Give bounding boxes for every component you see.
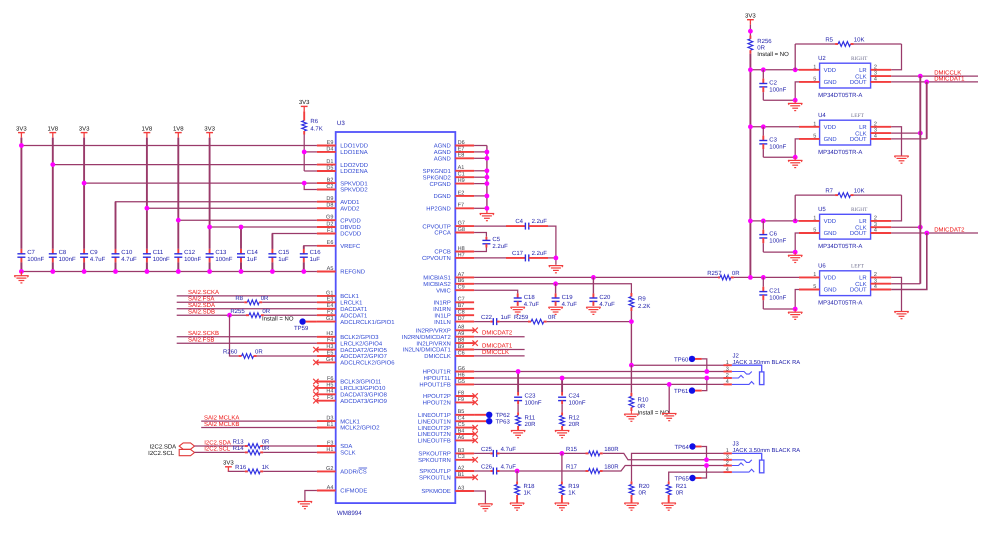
svg-text:20R: 20R [525,421,537,428]
svg-text:SAI2.SDB: SAI2.SDB [188,309,215,316]
resistor R257 0R from MICBIAS1 [707,270,750,280]
svg-text:DACDAT3/GPIO8: DACDAT3/GPIO8 [340,392,387,399]
junction G5 ground tap [667,382,672,387]
svg-text:1: 1 [813,216,816,222]
svg-text:SDA: SDA [340,443,352,450]
wire R6 to LDO1ENA D4 and LDO2ENA D5 [304,135,317,172]
svg-text:TP61: TP61 [674,388,689,395]
svg-text:A3: A3 [458,485,465,491]
capacitor C18 4.7uF [514,293,540,308]
junction U6 ground node [793,307,798,312]
wire U2 CLK to DMICCLK [891,70,978,77]
capacitor C21 100nF [759,277,786,309]
svg-text:100nF: 100nF [769,144,786,151]
junctions on U4 VDD row [748,124,766,129]
svg-text:1V8: 1V8 [173,125,184,132]
svg-text:MP34DT05TR-A: MP34DT05TR-A [818,243,862,250]
svg-text:C9: C9 [90,249,98,256]
svg-text:HPOUT1R: HPOUT1R [423,369,451,376]
svg-text:MICBIAS2: MICBIAS2 [423,281,451,288]
svg-text:C7: C7 [27,249,35,256]
svg-text:C5: C5 [458,422,465,428]
svg-text:2: 2 [726,460,729,466]
ground at J2 pin4 [662,414,676,421]
svg-text:3V3: 3V3 [745,13,756,20]
wire SDB down to R260 row [230,315,239,356]
svg-text:0R: 0R [262,445,270,452]
svg-text:IN1RN: IN1RN [433,306,451,313]
svg-text:D9: D9 [326,196,333,202]
junction sleeve node R9/R10/J2 [629,363,634,368]
svg-text:CPVOUTP: CPVOUTP [422,223,451,230]
svg-text:C8: C8 [59,249,67,256]
svg-text:C6: C6 [769,231,777,238]
wire C15 to DCVDD F1 row [272,234,317,249]
svg-text:LDO1VDD: LDO1VDD [340,143,368,150]
svg-text:ADCDAT2/GPIO7: ADCDAT2/GPIO7 [340,353,387,360]
svg-text:AVDD1: AVDD1 [340,199,359,206]
svg-text:SPKMODE: SPKMODE [421,488,451,495]
svg-text:100nF: 100nF [184,256,201,263]
svg-text:C22: C22 [481,314,493,321]
svg-text:3V3: 3V3 [299,99,310,106]
svg-text:2.2uF: 2.2uF [532,250,548,257]
junction D4 row [302,150,307,155]
node SAI2 MCLKB to MCLK2 [201,421,317,428]
svg-text:4: 4 [874,228,877,234]
svg-text:C6: C6 [458,350,465,356]
wire C16 to VREFC E6 row [304,246,317,249]
capacitor C11 100nF [143,249,170,263]
test point TP63 [474,418,510,426]
svg-text:ADDR/CS: ADDR/CS [340,469,367,476]
svg-text:A5: A5 [327,266,334,272]
svg-text:R7: R7 [825,188,833,195]
wire VDD row U2 [750,69,799,71]
node DMICDAT1 at IN2LN B9 [474,342,524,349]
svg-text:LR: LR [859,67,867,74]
wire U2 DOUT to DMICDAT1 [891,75,978,82]
power symbol 1V8 rail column 6 [173,125,184,137]
capacitor C17 2.2uF [512,250,547,261]
svg-text:180R: 180R [604,446,619,453]
svg-text:C18: C18 [524,294,536,301]
svg-text:HPOUT1L: HPOUT1L [424,375,452,382]
svg-text:C25: C25 [481,446,493,453]
svg-text:2: 2 [874,64,877,70]
junction DMICCLK at U5 [918,225,923,230]
capacitor C4 2.2uF [515,218,547,229]
svg-text:U6: U6 [818,263,826,270]
svg-text:A6: A6 [458,435,465,441]
svg-text:C12: C12 [184,249,196,256]
svg-text:C5: C5 [492,236,500,243]
svg-text:J2: J2 [733,352,740,359]
resistor R6 4.7K [302,111,323,134]
svg-text:REFGND: REFGND [340,269,365,276]
svg-text:DMICCLK: DMICCLK [424,353,451,360]
svg-text:H7: H7 [458,252,465,258]
svg-text:LEFT: LEFT [851,264,865,270]
svg-text:R15: R15 [566,446,578,453]
svg-text:SAI2.SDA: SAI2.SDA [188,302,215,309]
svg-text:E5: E5 [327,350,334,356]
svg-text:B9: B9 [458,344,465,350]
junction DMICDAT2 vertical top [924,231,929,236]
svg-text:LR: LR [859,275,867,282]
svg-text:CPCA: CPCA [434,230,450,237]
svg-text:U5: U5 [818,206,826,213]
svg-text:BCLK3/GPIO11: BCLK3/GPIO11 [340,379,381,386]
svg-text:IN2RP/VRXP: IN2RP/VRXP [416,328,451,335]
off-page connector I2C2.SCL [148,449,194,456]
junction U2 ground node [793,98,798,103]
power symbol 1V8 rail column 2 [47,125,58,137]
svg-text:R257: R257 [707,270,722,277]
svg-text:D8: D8 [326,203,333,209]
svg-text:HPOUT2P: HPOUT2P [423,393,451,400]
svg-text:4.7K: 4.7K [310,125,322,132]
wire vertical feed to C11 [146,138,148,272]
svg-text:MP34DT05TR-A: MP34DT05TR-A [818,149,862,156]
resistor R10 0R Install = NO [629,365,669,416]
svg-text:4: 4 [874,134,877,140]
svg-text:DMICDAT1: DMICDAT1 [482,342,513,349]
svg-text:B6: B6 [458,278,465,284]
junction R9 / IN1LN node [629,319,634,324]
svg-text:C2: C2 [769,80,777,87]
svg-text:3V3: 3V3 [204,125,215,132]
wire U5 GND to ground node [763,233,799,252]
wire SPKOUTLP A2 to C26 [474,470,493,472]
svg-text:E8: E8 [458,153,465,159]
junction TP60 on G6 row [704,369,709,374]
wire J3 pin1 row and R20 drop [632,453,724,481]
wire U4 LR to ground [891,127,901,156]
svg-text:IN1RP: IN1RP [433,300,450,307]
wire vertical feed to C8 [52,138,54,272]
svg-text:SPKGND1: SPKGND1 [423,168,451,175]
svg-text:LR: LR [859,218,867,225]
svg-text:MICBIAS1: MICBIAS1 [423,275,451,282]
svg-text:4.7uF: 4.7uF [599,301,615,308]
svg-text:TP65: TP65 [674,475,689,482]
junctions on REFGND rail [19,269,306,274]
wire R5 to U2 LR [891,44,901,70]
svg-text:4: 4 [874,77,877,83]
wire U2 GND to ground node [763,82,799,100]
wire U6 CLK to DMICCLK vertical [891,283,920,285]
capacitor C23 100nF [514,372,542,407]
svg-text:G2: G2 [326,466,333,472]
junction TP65 on J3 pin2 row [704,463,709,468]
svg-text:LRCLK3/GPIO10: LRCLK3/GPIO10 [340,385,386,392]
svg-text:1: 1 [813,272,816,278]
svg-text:GND: GND [824,287,837,294]
test point TP60 [674,356,707,372]
connector J3 JACK 3.50mm BLACK RA [724,440,801,473]
svg-text:0R: 0R [638,403,646,410]
test point TP61 [674,378,707,395]
svg-text:DACDAT2/GPIO5: DACDAT2/GPIO5 [340,347,387,354]
ground below R19 [555,503,569,510]
wire C10 to AVDD1 D9 row [116,202,317,249]
ground below U6 [788,309,802,319]
wire J2 sleeve pin1 row [631,364,723,366]
digital microphone U6 MP34DT05TR-A LEFT [707,76,927,319]
wire vertical feed to C10 [115,202,117,272]
svg-text:SPKOUTLP: SPKOUTLP [419,468,450,475]
svg-text:F7: F7 [458,203,464,209]
junctions on U5 VDD row [748,219,798,224]
svg-text:MP34DT05TR-A: MP34DT05TR-A [818,299,862,306]
wire VDD row U4 [750,126,799,128]
svg-text:0R: 0R [255,349,263,356]
wire 1V8 to LDO2VDD D1 row [53,164,317,166]
svg-text:C20: C20 [599,294,611,301]
junction below 3V3 [748,29,753,34]
junction U4 ground node [793,155,798,160]
svg-text:B4: B4 [458,428,465,434]
svg-text:100nF: 100nF [569,399,586,406]
svg-text:R11: R11 [525,414,536,421]
ground below R21 [662,503,676,510]
svg-text:0R: 0R [676,489,684,496]
resistor R260 0R to ADCDAT2 [223,349,317,359]
svg-text:IN2RN/DMICDAT2: IN2RN/DMICDAT2 [402,334,451,341]
svg-text:4: 4 [874,284,877,290]
wire R259 to R9 node [547,321,632,323]
svg-text:A9: A9 [458,331,465,337]
U3 left pins with designators [317,140,395,495]
wire 1V8 to AVDD2 D8 row [147,207,317,209]
svg-text:LRCLK2/GPIO4: LRCLK2/GPIO4 [340,340,383,347]
junction DMICDAT1 vertical top [924,80,929,85]
svg-text:ADCDAT3/GPIO9: ADCDAT3/GPIO9 [340,398,387,405]
junction 1V8 rail / G9 row [176,218,181,223]
svg-text:R18: R18 [524,483,536,490]
wire VMIC C9 row to C18 [474,290,518,293]
ground below R20 [624,503,638,510]
svg-text:SPKOUTLN: SPKOUTLN [419,475,451,482]
svg-text:4.7uF: 4.7uF [501,463,517,470]
wire IN1LN D7 to C22 [474,321,493,323]
svg-text:C24: C24 [569,392,581,399]
svg-text:G6: G6 [458,366,465,372]
test point TP59 [294,318,317,332]
svg-text:G1: G1 [326,290,333,296]
svg-text:3V3: 3V3 [79,125,90,132]
svg-text:VMIC: VMIC [436,287,451,294]
wire U6 DOUT to DMICDAT2 vertical [891,233,927,290]
svg-text:F3: F3 [327,440,333,446]
svg-text:G3: G3 [326,316,333,322]
svg-text:LINEOUT2N: LINEOUT2N [418,431,451,438]
svg-text:GND: GND [824,230,837,237]
svg-text:G8: G8 [458,227,465,233]
ground below C19 [548,307,562,314]
resistor R19 1K [560,453,580,503]
svg-text:LEFT: LEFT [851,113,865,119]
capacitor C15 1uF [268,249,289,263]
svg-text:1: 1 [813,121,816,127]
svg-text:1K: 1K [262,464,269,471]
no-connect X marks on unused U3 left pins [313,347,318,404]
svg-text:1: 1 [726,360,729,366]
svg-text:HPOUT1FB: HPOUT1FB [419,382,450,389]
svg-text:10K: 10K [854,36,865,43]
svg-text:C10: C10 [121,249,133,256]
wire HPOUT1FB to ground tap [668,384,670,413]
svg-text:100nF: 100nF [525,399,542,406]
capacitor C24 100nF [558,378,586,406]
svg-text:MCLK1: MCLK1 [340,418,360,425]
svg-text:C14: C14 [247,249,259,256]
wire microphone VDD rail [749,54,751,278]
power symbol 3V3 above R6 [299,99,310,111]
svg-text:4.7uF: 4.7uF [501,446,517,453]
svg-text:SPKVDD1: SPKVDD1 [340,180,368,187]
junction DMICCLK at U4 [918,131,923,136]
svg-text:0R: 0R [757,45,765,52]
svg-text:R10: R10 [638,396,650,403]
junction C20 tap on A7 row [591,275,596,280]
capacitor C6 100nF [759,221,786,252]
svg-text:F6: F6 [327,376,333,382]
svg-text:DMICDAT2: DMICDAT2 [934,226,965,233]
ground below C20 [586,307,600,314]
wire MICBIAS1 A7 long row to R257 [474,276,718,278]
wire C26 to R17 [497,470,586,472]
svg-text:Install = NO: Install = NO [262,316,294,323]
resistor R9 2.2K [629,293,650,311]
capacitor C16 1uF [300,249,321,263]
ground below C18 [511,307,525,314]
svg-text:F8: F8 [458,390,464,396]
svg-text:5: 5 [813,77,816,83]
svg-text:R259: R259 [514,314,529,321]
svg-text:E2: E2 [458,190,465,196]
svg-text:100nF: 100nF [769,295,786,302]
power symbol 3V3 rail column 7 [204,125,215,137]
ground at U6 LR [894,312,908,319]
resistor R11 20R [516,404,536,430]
svg-text:0R: 0R [261,295,269,302]
junctions on U6 VDD row [748,275,766,280]
junction TP61 on H6 row [704,376,709,381]
svg-text:R8: R8 [235,295,243,302]
svg-text:5: 5 [813,228,816,234]
svg-text:2.2uF: 2.2uF [532,218,548,225]
svg-text:C17: C17 [512,250,524,257]
svg-text:100nF: 100nF [27,256,44,263]
wire C19 upper lead [555,284,557,294]
svg-text:DBVDD: DBVDD [340,224,361,231]
wire REFGND bottom rail to pin A5 [21,271,317,273]
wire C25 to R15 [497,452,586,454]
svg-text:R20: R20 [639,483,651,490]
svg-text:SPKGND2: SPKGND2 [423,174,451,181]
svg-text:ADCDAT1: ADCDAT1 [340,312,367,319]
svg-text:E4: E4 [327,303,334,309]
svg-text:TP63: TP63 [496,419,511,426]
svg-text:D3: D3 [326,416,333,422]
svg-text:AGND: AGND [434,149,451,156]
wire C5 to CPCB H8 [474,244,486,252]
svg-text:Install = NO: Install = NO [757,51,789,58]
svg-text:F2: F2 [327,310,333,316]
svg-text:2.2K: 2.2K [638,303,650,310]
junction DMICCLK vertical top [918,74,923,79]
svg-text:H3: H3 [326,344,333,350]
svg-text:4.7uF: 4.7uF [524,301,540,308]
svg-text:IN2LN/DMICDAT1: IN2LN/DMICDAT1 [403,347,451,354]
U3 right pins with designators [402,140,474,495]
svg-text:LRCLK1: LRCLK1 [340,300,362,307]
node I2C2.SCL with resistor R14 0R to SCLK [195,445,317,455]
wire 3V3 to R256 [749,25,751,36]
svg-text:R256: R256 [757,38,772,45]
svg-text:R6: R6 [310,118,318,125]
svg-text:G5: G5 [458,379,465,385]
svg-text:R5: R5 [825,36,833,43]
svg-text:I2C2.SDA: I2C2.SDA [204,439,231,446]
svg-text:SPKOUTRN: SPKOUTRN [418,457,451,464]
wire 1V8 to CPVDD G9 row [178,219,317,221]
svg-text:CPVOUTN: CPVOUTN [422,255,451,262]
svg-text:LR: LR [859,124,867,131]
svg-text:E3: E3 [327,297,334,303]
svg-text:C19: C19 [562,294,574,301]
svg-text:DMICCLK: DMICCLK [482,349,509,356]
capacitor C26 4.7uF [481,463,516,474]
junctions on U2 VDD row [748,67,798,72]
junction B2 row tie [302,181,307,186]
svg-text:CIFMODE: CIFMODE [340,488,367,495]
svg-text:HPOUT2N: HPOUT2N [423,400,451,407]
svg-text:LINEOUTFB: LINEOUTFB [418,438,451,445]
resistor R12 20R [560,404,580,430]
svg-text:I2C2.SCL: I2C2.SCL [148,450,175,457]
svg-text:DMICDAT1: DMICDAT1 [934,75,965,82]
junction charge pump ground node [554,256,559,261]
wire MICBIAS2 B6 row to R9 top [474,284,631,293]
capacitor C5 2.2uF [482,236,508,250]
svg-text:C4: C4 [515,218,523,225]
svg-text:IN2LP/VRXN: IN2LP/VRXN [416,340,450,347]
svg-text:5: 5 [813,134,816,140]
no-connect X marks on unused U3 right pins [472,328,477,481]
svg-text:5: 5 [813,284,816,290]
svg-text:D5: D5 [326,165,333,171]
wire SPKMODE A3 to ground [474,491,485,504]
svg-text:4.7uF: 4.7uF [90,256,106,263]
junction R19 tap on B3 row [560,451,565,456]
svg-text:TP59: TP59 [294,325,309,332]
capacitor C8 100nF [49,249,76,263]
svg-text:C13: C13 [215,249,227,256]
node SAI2.SCKA to BCLK1 [177,289,317,296]
svg-text:H1: H1 [326,447,333,453]
resistor R256 0R Install = NO [748,36,789,59]
capacitor C20 4.7uF [589,293,615,308]
svg-text:VDD: VDD [824,218,836,225]
wire U6 LR to ground [891,277,901,311]
svg-text:F4: F4 [327,338,333,344]
svg-text:CPGND: CPGND [430,181,451,188]
wire VDD row U6 [750,276,799,278]
resistor R17 180R [566,463,619,473]
